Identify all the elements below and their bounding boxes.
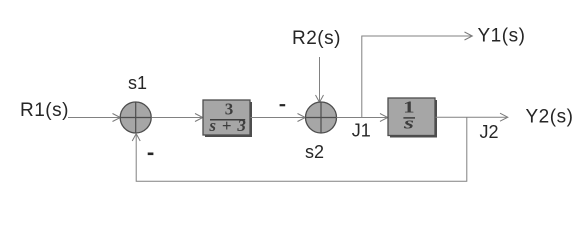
svg-text:J1: J1 bbox=[352, 121, 371, 141]
svg-text:s1: s1 bbox=[128, 73, 147, 93]
svg-text:s: s bbox=[403, 114, 414, 133]
svg-text:s2: s2 bbox=[305, 142, 324, 162]
svg-text:J2: J2 bbox=[480, 122, 499, 142]
block G1 3/(s+3) bbox=[203, 100, 252, 137]
svg-text:Y1(s): Y1(s) bbox=[478, 26, 526, 47]
wire s2 to block G2 bbox=[337, 117, 387, 119]
arrowhead into s1 bbox=[113, 114, 121, 122]
svg-text:s + 3: s + 3 bbox=[208, 116, 246, 135]
minus sign at s2 input bbox=[280, 104, 286, 106]
wire G1 to s2 bbox=[251, 117, 305, 119]
feedback wire J2 down, left, up into s1 bbox=[136, 117, 467, 181]
arrowhead into s2 bbox=[298, 114, 306, 122]
svg-text:R2(s): R2(s) bbox=[292, 28, 341, 49]
wire G2 to Y2 bbox=[436, 116, 507, 118]
block G2 1/s bbox=[388, 98, 437, 138]
minus sign at s1 feedback input bbox=[148, 153, 154, 156]
arrowhead into s2 top bbox=[316, 95, 324, 102]
arrowhead into s1 bottom bbox=[132, 134, 140, 141]
wire R2 down to s2 bbox=[319, 57, 321, 101]
arrowhead to Y1 bbox=[465, 32, 473, 40]
arrowhead into G2 bbox=[380, 114, 388, 122]
wire s1 to block G1 bbox=[152, 117, 202, 119]
summing junction s1 bbox=[120, 102, 151, 133]
wire R1 to s1 bbox=[68, 117, 119, 119]
svg-text:R1(s): R1(s) bbox=[20, 100, 69, 121]
arrowhead into G1 bbox=[195, 114, 203, 122]
arrowhead to Y2 bbox=[500, 113, 508, 121]
wire J1 branch up and right to Y1 bbox=[362, 36, 471, 118]
svg-text:Y2(s): Y2(s) bbox=[526, 107, 573, 128]
summing junction s2 bbox=[306, 102, 337, 133]
